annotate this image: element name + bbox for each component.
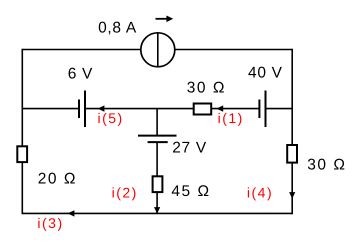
wire: middle horizontal left segment	[22, 108, 79, 110]
arrow i(1) (left)	[216, 105, 223, 111]
wire: top left segment	[22, 49, 141, 51]
wire: bottom	[22, 212, 292, 214]
svg-text:i(5): i(5)	[98, 110, 124, 126]
svg-text:20 Ω: 20 Ω	[38, 171, 77, 188]
wire: right vertical	[291, 49, 293, 215]
current source I 0,8 A (circle with bar)	[141, 33, 175, 67]
svg-text:i(1): i(1)	[218, 110, 244, 126]
svg-text:6 V: 6 V	[68, 65, 93, 82]
resistor R 30 Ω right (vertical)	[287, 145, 297, 163]
wire: top right segment	[175, 49, 292, 51]
arrow i(3) (left, bottom wire)	[68, 210, 75, 216]
svg-text:27 V: 27 V	[172, 140, 207, 157]
wire: middle horizontal center segment	[85, 108, 259, 110]
svg-text:0,8 A: 0,8 A	[98, 20, 137, 37]
svg-text:i(3): i(3)	[37, 215, 63, 231]
resistor R 45 Ω (vertical)	[153, 176, 163, 192]
arrow: source current direction (right)	[156, 16, 174, 23]
wire: middle horizontal right segment	[266, 108, 293, 110]
wire: center branch lower	[156, 142, 158, 213]
resistor R 20 Ω (vertical)	[17, 146, 27, 162]
wire: left vertical	[21, 49, 23, 215]
svg-text:45 Ω: 45 Ω	[171, 183, 210, 200]
svg-text:30 Ω: 30 Ω	[187, 79, 226, 96]
battery V3 27 V (horizontal plates)	[138, 136, 177, 143]
arrow i(5) (left)	[98, 105, 105, 111]
svg-text:i(2): i(2)	[112, 184, 138, 200]
svg-text:i(4): i(4)	[247, 184, 273, 200]
resistor R 30 Ω top (horizontal)	[194, 104, 212, 115]
arrow i(2) (down)	[154, 207, 160, 214]
wire: center branch upper	[156, 109, 158, 136]
arrow i(4) (down)	[289, 192, 295, 199]
battery V2 40 V (plates)	[259, 91, 265, 128]
svg-text:40 V: 40 V	[248, 65, 283, 82]
svg-text:30 Ω: 30 Ω	[307, 157, 346, 174]
battery V1 6 V (plates)	[79, 91, 85, 128]
